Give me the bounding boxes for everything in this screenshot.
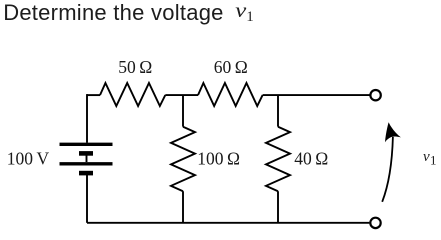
svg-text:40 Ω: 40 Ω xyxy=(294,149,328,169)
wire stub above 40ohm xyxy=(277,95,279,127)
wire bottom horizontal xyxy=(87,222,369,224)
battery short plate 1 xyxy=(79,151,93,156)
resistor 100ohm zigzag xyxy=(171,127,195,192)
voltage arrow shaft xyxy=(382,137,393,202)
wire from 60ohm to top-right terminal xyxy=(263,94,370,96)
svg-text:Determine the voltage: Determine the voltage xyxy=(3,0,223,25)
svg-text:v: v xyxy=(423,149,430,165)
battery short plate 2 xyxy=(79,171,93,176)
label v1 voltage xyxy=(423,149,437,168)
svg-text:50 Ω: 50 Ω xyxy=(118,57,152,77)
svg-text:v: v xyxy=(235,0,246,22)
wire left rail bottom (battery to bottom wire) xyxy=(86,175,88,223)
voltage arrow head xyxy=(385,122,401,142)
wire stub below 100ohm xyxy=(182,191,184,223)
wire between 50ohm and 60ohm xyxy=(165,94,198,96)
resistor 40ohm zigzag xyxy=(266,127,290,192)
svg-text:100 Ω: 100 Ω xyxy=(197,149,240,169)
svg-text:60 Ω: 60 Ω xyxy=(214,57,248,77)
terminal circle bottom xyxy=(370,218,380,228)
battery V1 long plate 1 xyxy=(60,143,113,146)
wire stub above 100ohm xyxy=(182,95,184,127)
battery long plate 2 xyxy=(60,162,113,165)
title math v1 xyxy=(235,0,253,25)
wire stub below 40ohm xyxy=(277,191,279,223)
svg-text:1: 1 xyxy=(246,9,254,25)
wire top-left horizontal segment xyxy=(87,94,100,96)
battery inter-cell connector xyxy=(86,155,88,162)
wire left rail top (to battery) xyxy=(86,94,88,143)
terminal circle top xyxy=(370,90,380,100)
resistor 60ohm zigzag xyxy=(198,83,263,106)
resistor 50ohm zigzag xyxy=(100,83,165,106)
svg-text:1: 1 xyxy=(430,152,437,167)
svg-text:100 V: 100 V xyxy=(7,148,50,168)
